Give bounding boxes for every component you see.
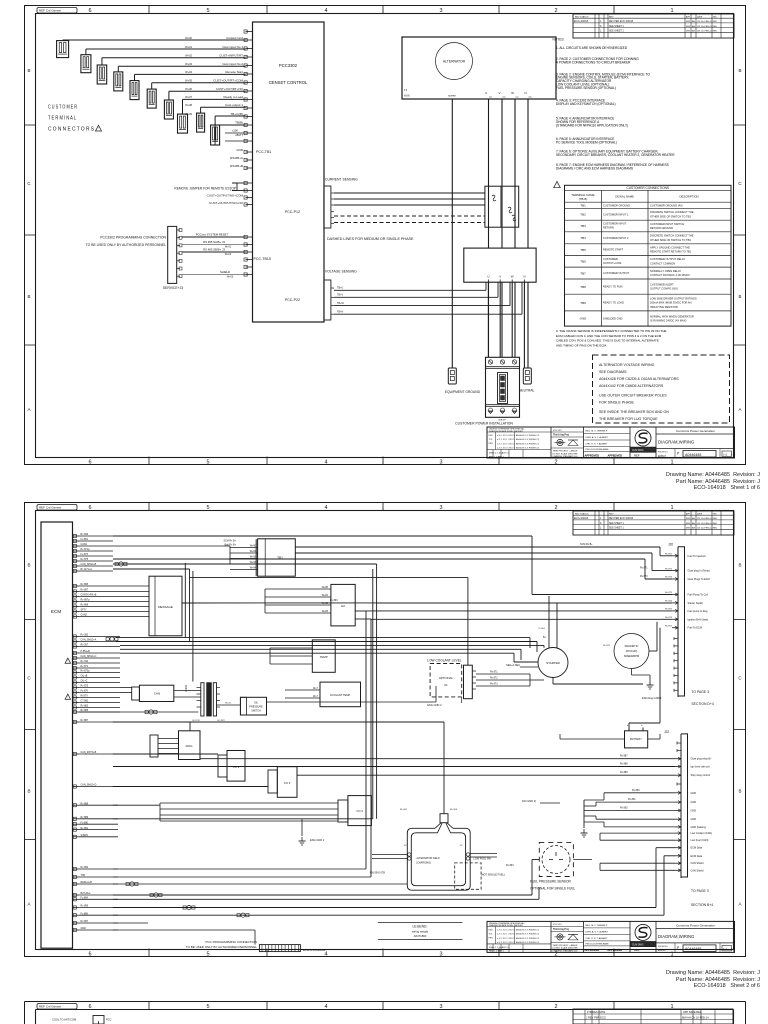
svg-text:W+01: W+01 (185, 45, 192, 49)
svg-text:GND: GND (691, 810, 697, 813)
svg-text:Fuel pump to Reg: Fuel pump to Reg (688, 610, 708, 613)
svg-text:EQUIPMENT GROUND: EQUIPMENT GROUND (445, 390, 481, 394)
svg-text:SECTION B+4: SECTION B+4 (691, 903, 713, 907)
svg-text:W+05: W+05 (185, 79, 192, 83)
svg-text:+: + (641, 723, 643, 727)
svg-text:TB(B): TB(B) (235, 121, 243, 125)
svg-text:Rv 844: Rv 844 (665, 601, 673, 603)
svg-text:W+503: W+503 (450, 809, 458, 811)
svg-text:CHK. K. S. T. ALBERT: CHK. K. S. T. ALBERT (586, 937, 608, 940)
svg-text:6: 6 (88, 460, 91, 466)
svg-text:SHIELD: SHIELD (220, 270, 230, 274)
svg-text:ECM Data: ECM Data (691, 855, 703, 858)
svg-text:TO BE USED ONLY BY AUTHORIZED: TO BE USED ONLY BY AUTHORIZED PERSONNEL (86, 243, 167, 247)
svg-text:CABLED CON. POS & CON.NEG. TH: CABLED CON. POS & CON.NEG. THIS IS DUE T… (556, 339, 659, 343)
svg-text:TB1: TB1 (580, 203, 586, 207)
svg-text:W+08: W+08 (185, 103, 192, 107)
svg-text:PCC: PCC (106, 1018, 112, 1022)
svg-text:CUST+OUT/RT+NO: CUST+OUT/RT+NO (216, 87, 244, 91)
svg-text:LTR DES DATE: LTR DES DATE (587, 1010, 605, 1014)
svg-text:PCC-P12: PCC-P12 (285, 210, 300, 214)
svg-text:DWG 1 1 SCALE 1:1: DWG 1 1 SCALE 1:1 (489, 946, 510, 949)
svg-text:DASHED LINES FOR MEDIUM OR SIN: DASHED LINES FOR MEDIUM OR SINGLE PHASE (327, 237, 414, 241)
svg-text:(TB15): (TB15) (579, 197, 588, 201)
svg-text:C: C (738, 676, 742, 681)
svg-text:Ready to Load: Ready to Load (223, 95, 243, 99)
svg-text:Rv 871: Rv 871 (665, 568, 673, 570)
svg-text:ANGLES X.X FINISH 2.5: ANGLES X.X FINISH 2.5 (516, 937, 540, 940)
svg-text:CUSTOMER INPUT SWITCH: CUSTOMER INPUT SWITCH (650, 222, 684, 226)
svg-text:screen: screen (448, 94, 456, 98)
svg-text:APPROVED: APPROVED (585, 948, 600, 952)
svg-text:2: 2 (554, 1004, 557, 1010)
svg-text:RS485+A: RS485+A (230, 156, 243, 160)
svg-text:REMOTE START RETURN TO TB1: REMOTE START RETURN TO TB1 (650, 250, 692, 254)
svg-text:CN 10+FEB+14: CN 10+FEB+14 (697, 523, 713, 525)
svg-text:W+02: W+02 (185, 54, 192, 58)
svg-text:Rv 873: Rv 873 (640, 575, 648, 578)
svg-text:Rv 890: Rv 890 (632, 789, 640, 792)
svg-text:TB6: TB6 (580, 259, 586, 263)
svg-text:PCC-TB1: PCC-TB1 (256, 150, 271, 154)
svg-text:x.X 2 .XX 2 .XXX 2: x.X 2 .XX 2 .XXX 2 (497, 938, 515, 940)
svg-text:IS RUNNING 24VDC (4X MAX): IS RUNNING 24VDC (4X MAX) (650, 319, 686, 323)
svg-text:REF Cnf Genset: REF Cnf Genset (39, 506, 61, 510)
svg-text:A0446485: A0446485 (685, 947, 701, 951)
svg-text:DATE: DATE (697, 512, 703, 515)
svg-text:A0471860: A0471860 (414, 934, 427, 938)
svg-text:2: 2 (554, 505, 557, 511)
svg-text:W: W (511, 91, 514, 95)
svg-text:J20: J20 (668, 543, 673, 547)
svg-text:W+94: W+94 (250, 567, 257, 570)
svg-text:SIGNAL NAME: SIGNAL NAME (615, 195, 634, 199)
svg-text:TB+W: TB+W (337, 302, 344, 305)
svg-text:Cust output 1: Cust output 1 (225, 103, 243, 107)
svg-text:CUM DWG: CUM DWG (632, 450, 644, 452)
svg-text:↓: ↓ (382, 9, 385, 15)
svg-text:W+7: W+7 (313, 687, 319, 690)
svg-text:DWN. A. S. T. ALBERT: DWN. A. S. T. ALBERT (586, 436, 609, 439)
svg-text:DISCRETE SWITCH CONNECT THE: DISCRETE SWITCH CONNECT THE (650, 234, 694, 238)
svg-text:x.X 0 .XX 0 .XXX 0: x.X 0 .XX 0 .XXX 0 (497, 929, 515, 931)
svg-text:SERVICE+J3: SERVICE+J3 (163, 286, 183, 290)
svg-text:TB9: TB9 (580, 301, 586, 305)
svg-text:W+01: W+01 (225, 246, 232, 249)
svg-text:MESSAGE: MESSAGE (158, 605, 173, 609)
svg-text:W+7: W+7 (313, 695, 319, 698)
svg-text:DO NOT SCALE DWG PER: DO NOT SCALE DWG PER (553, 452, 579, 455)
svg-text:Glow plug In (Temp): Glow plug In (Temp) (688, 570, 711, 573)
svg-text:B: B (27, 294, 30, 299)
svg-text:ANGLES X.X FINISH 2.5: ANGLES X.X FINISH 2.5 (516, 447, 540, 450)
svg-text:W+92: W+92 (250, 556, 257, 559)
svg-text:PM 01.02.09 RELEASE: PM 01.02.09 RELEASE (586, 448, 610, 451)
svg-text:Rv 872: Rv 872 (490, 677, 498, 680)
svg-text:NEG+A NEG: NEG+A NEG (506, 664, 520, 667)
svg-text:LOW FUEL SW: LOW FUEL SW (474, 858, 492, 861)
svg-text:TO PAGE 3: TO PAGE 3 (691, 889, 709, 893)
svg-text:Batt Rx B+: Batt Rx B+ (225, 544, 237, 547)
svg-text:APPROVED: APPROVED (608, 454, 623, 458)
svg-text:APPLY GROUND CONNECT THE: APPLY GROUND CONNECT THE (650, 246, 690, 250)
svg-text:FSCM NO.: FSCM NO. (658, 946, 669, 948)
svg-text:COOLANT TEMP: COOLANT TEMP (330, 693, 351, 697)
svg-text:DIM: DIM (489, 929, 493, 931)
svg-text:CONTACT COMMON: CONTACT COMMON (650, 261, 675, 265)
svg-text:REF: REF (634, 454, 640, 458)
svg-text:TB2: TB2 (580, 212, 586, 216)
svg-text:ANGLES X.X FINISH 2.5: ANGLES X.X FINISH 2.5 (516, 933, 540, 936)
svg-text:DWG 1 1 SCALE 1:1: DWG 1 1 SCALE 1:1 (489, 452, 510, 455)
svg-text:Rv 871: Rv 871 (490, 671, 498, 674)
svg-text:SCM Rx B+: SCM Rx B+ (580, 543, 593, 546)
svg-text:CAN Shield: CAN Shield (691, 862, 705, 865)
svg-text:x.X 1 .XX 1 .XXX 1: x.X 1 .XX 1 .XXX 1 (497, 934, 515, 936)
svg-text:CO 3: CO 3 (284, 781, 291, 785)
svg-text:5: 5 (206, 505, 209, 511)
svg-text:REV 1 J SHT 1: REV 1 J SHT 1 (489, 951, 505, 953)
svg-text:6: 6 (88, 1004, 91, 1010)
svg-text:B: B (27, 68, 30, 73)
svg-text:ALTERNATOR: ALTERNATOR (443, 60, 466, 64)
svg-text:TB4: TB4 (580, 236, 586, 240)
svg-text:LOW COOLANT LEVEL: LOW COOLANT LEVEL (427, 659, 462, 663)
svg-text:x.X 2 .XX 2 .XXX 2: x.X 2 .XX 2 .XXX 2 (497, 443, 515, 445)
svg-text:Fuel Pump To Coil: Fuel Pump To Coil (688, 594, 709, 597)
svg-text:Rv 893: Rv 893 (506, 864, 514, 867)
svg-text:W+04: W+04 (185, 70, 192, 74)
svg-text:CAN Shield: CAN Shield (691, 869, 705, 872)
svg-text:U: U (485, 91, 487, 95)
svg-text:Rv 875: Rv 875 (665, 592, 673, 594)
svg-text:GND: GND (691, 818, 697, 821)
svg-text:Ign three wire pin: Ign three wire pin (691, 766, 711, 769)
svg-text:TOL: TOL (489, 439, 494, 441)
svg-text:Low Fuel (CAN): Low Fuel (CAN) (691, 839, 709, 842)
svg-text:Rv 889: Rv 889 (620, 771, 628, 774)
svg-text:PCC-P22: PCC-P22 (285, 298, 300, 302)
svg-text:CUSTOMER POWER INSTALLATION: CUSTOMER POWER INSTALLATION (455, 422, 513, 426)
svg-text:(1): (1) (503, 97, 506, 99)
svg-text:Third Ang Proj: Third Ang Proj (553, 928, 569, 931)
svg-text:9. THE CRANK SENSOR IS INDEPEN: 9. THE CRANK SENSOR IS INDEPENDENTLY CON… (556, 329, 666, 333)
svg-text:TB3: TB3 (580, 224, 586, 228)
svg-text:Rv 871: Rv 871 (640, 567, 648, 570)
svg-text:4TH XXX: 4TH XXX (553, 430, 562, 432)
svg-text:PCC3302 PROGRAMMING CONNECTION: PCC3302 PROGRAMMING CONNECTION (100, 236, 166, 240)
svg-text:DIAGRAM,WIRING: DIAGRAM,WIRING (658, 440, 694, 445)
svg-text:NOTES:: NOTES: (553, 38, 565, 42)
svg-text:J22: J22 (664, 730, 669, 734)
svg-text:AH: AH (692, 25, 695, 28)
svg-text:NEUTRAL: NEUTRAL (519, 389, 535, 393)
svg-text:T E R M I N A L: T E R M I N A L (48, 116, 76, 122)
svg-text:A: A (27, 902, 30, 907)
svg-text:PM 01.02.09 RELEASE: PM 01.02.09 RELEASE (586, 942, 610, 945)
svg-text:W+00: W+00 (185, 36, 192, 40)
svg-text:TOL: TOL (489, 933, 494, 935)
svg-text:ALTERNATOR FIELD: ALTERNATOR FIELD (416, 857, 439, 860)
svg-text:W+90: W+90 (250, 545, 257, 548)
svg-text:DIM: DIM (489, 435, 493, 437)
svg-text:ANGLES X.X FINISH 2.5: ANGLES X.X FINISH 2.5 (516, 434, 540, 437)
svg-text:THE BREAKER FOR LUG TORQUE: THE BREAKER FOR LUG TORQUE (599, 417, 658, 421)
svg-text:CO 4: CO 4 (356, 809, 363, 813)
svg-text:Cummins Power Generation: Cummins Power Generation (676, 429, 715, 433)
svg-text:E05617: E05617 (658, 950, 667, 952)
svg-text:SECTION D+4: SECTION D+4 (691, 702, 713, 706)
svg-text:PCC-TB15: PCC-TB15 (254, 257, 271, 261)
svg-text:OUTPUT CONFIG (NO): OUTPUT CONFIG (NO) (650, 287, 678, 291)
svg-text:LOW SIDE DRIVER OUTPUT RATINGS: LOW SIDE DRIVER OUTPUT RATINGS: (650, 296, 698, 300)
svg-text:PRESSURE: PRESSURE (249, 706, 263, 709)
svg-text:READY TO RUN: READY TO RUN (603, 285, 623, 289)
svg-text:REF Cnf Genset: REF Cnf Genset (39, 9, 61, 13)
svg-text:Glow plug relay B+: Glow plug relay B+ (691, 758, 713, 761)
svg-text:4: 4 (324, 8, 327, 14)
svg-text:Rv 857: Rv 857 (665, 625, 673, 627)
svg-text:CUSTOMER GROUND: CUSTOMER GROUND (603, 203, 630, 207)
svg-text:1: 1 (670, 8, 673, 14)
svg-text:x10K: x10K (232, 129, 238, 133)
svg-text:OTHER SIDE OF SWITCH TO TB3: OTHER SIDE OF SWITCH TO TB3 (650, 238, 691, 242)
svg-text:APPROVED: APPROVED (585, 454, 600, 458)
svg-text:4: 4 (324, 460, 327, 466)
svg-text:TO PAGE 3: TO PAGE 3 (691, 690, 709, 694)
svg-text:x.X 0 .XX 0 .XXX 0: x.X 0 .XX 0 .XXX 0 (497, 435, 515, 437)
svg-text:1: 1 (670, 460, 673, 466)
svg-text:REV: REV (609, 16, 614, 18)
svg-text:RS 485 SA/B+ J3: RS 485 SA/B+ J3 (203, 240, 225, 244)
svg-text:3: 3 (439, 8, 442, 14)
svg-text:NORMAL HIGH WHEN GENERATOR: NORMAL HIGH WHEN GENERATOR (650, 314, 694, 318)
svg-text:1+1: 1+1 (723, 453, 728, 456)
svg-text:TEMP: TEMP (320, 655, 328, 659)
svg-text:REMOVE JUMPER FOR REMOTE ESTOP: REMOVE JUMPER FOR REMOTE ESTOP (174, 187, 236, 191)
svg-text:W: W (511, 275, 514, 279)
svg-text:A044X428 FOR C62D5 & C62A5 AL: A044X428 FOR C62D5 & C62A5 ALTERNATORS (599, 377, 679, 381)
svg-text:NORMALLY OPEN RELAY: NORMALLY OPEN RELAY (650, 269, 681, 273)
svg-text:CUSTOMER INPUT: CUSTOMER INPUT (603, 222, 627, 226)
svg-text:W+06: W+06 (185, 87, 192, 91)
svg-text:CUSTOMER INPUT 1: CUSTOMER INPUT 1 (603, 212, 629, 216)
svg-text:TB+V: TB+V (337, 294, 343, 297)
svg-text:Remote Start: Remote Start (225, 70, 243, 74)
svg-text:Glow Plugs To ECM: Glow Plugs To ECM (688, 578, 710, 581)
svg-text:CAN: CAN (154, 692, 160, 696)
svg-text:250mA MAX IMUM 30VDC FOR AN: 250mA MAX IMUM 30VDC FOR AN (650, 301, 692, 305)
svg-text:BATTERY: BATTERY (630, 737, 642, 741)
svg-text:FUEL PRESSURE SENSOR: FUEL PRESSURE SENSOR (530, 880, 571, 884)
svg-text:CUSTOMER OUTPUT RELAY: CUSTOMER OUTPUT RELAY (650, 257, 685, 261)
svg-text:ENG Eng GND 1: ENG Eng GND 1 (642, 696, 662, 700)
svg-text:A: A (738, 902, 741, 907)
svg-text:CN 10+FEB+14: CN 10+FEB+14 (697, 518, 713, 520)
svg-text:Rv 887: Rv 887 (620, 755, 628, 758)
svg-text:Rv 891: Rv 891 (628, 798, 636, 801)
svg-text:ANGLES X.X FINISH 2.5: ANGLES X.X FINISH 2.5 (516, 941, 540, 944)
svg-text:6: 6 (88, 8, 91, 14)
svg-text:TB+N: TB+N (337, 311, 343, 314)
svg-text:CN 10+FEB+14: CN 10+FEB+14 (697, 21, 713, 23)
svg-text:ENG GND 2: ENG GND 2 (310, 838, 325, 842)
svg-text:C U S T O M E R: C U S T O M E R (48, 105, 77, 111)
svg-text:COOL TO ANT/COM: COOL TO ANT/COM (52, 1018, 76, 1022)
svg-text:FUEL PRESSURE SENSOR (OPTIONAL: FUEL PRESSURE SENSOR (OPTIONAL) (556, 86, 616, 90)
svg-text:Rv 873: Rv 873 (665, 577, 673, 579)
svg-text:APP DATE REL: APP DATE REL (683, 1010, 702, 1014)
svg-text:DRAWING STANDARD 100: DRAWING STANDARD 100 (553, 455, 579, 458)
svg-text:FOR SINGLE PHASE: FOR SINGLE PHASE (599, 401, 635, 405)
svg-text:DIMENSIONS ARE IN MILLIMETERS: DIMENSIONS ARE IN MILLIMETERS (489, 924, 523, 927)
svg-text:A POWER CONNECTIONS TO CIRCUIT: A POWER CONNECTIONS TO CIRCUIT BREAKER (556, 61, 631, 65)
svg-text:B: B (27, 789, 30, 794)
svg-text:REV PER ECO 104918: REV PER ECO 104918 (609, 518, 634, 520)
svg-text:DRAWING STANDARD 100: DRAWING STANDARD 100 (553, 950, 579, 953)
svg-text:Rv 847: Rv 847 (665, 609, 673, 611)
svg-text:↑: ↑ (382, 952, 385, 958)
svg-text:DIAGRAMS / CIRC AND ECM HARNES: DIAGRAMS / CIRC AND ECM HARNESS DIAGRAMS (556, 167, 633, 171)
svg-text:Coolant Gnd: Coolant Gnd (226, 36, 243, 40)
svg-text:CN 10+FEB+14: CN 10+FEB+14 (697, 528, 713, 530)
svg-text:VOLTAGE SENSING: VOLTAGE SENSING (325, 270, 357, 274)
svg-text:FSCM NO.: FSCM NO. (658, 452, 669, 454)
svg-text:PER: PER (489, 443, 494, 445)
svg-text:REF Cnf Genset: REF Cnf Genset (39, 1005, 61, 1009)
svg-text:(1): (1) (516, 97, 519, 99)
svg-text:H2: H2 (341, 604, 345, 608)
svg-text:MDL. M. V. TERWELP: MDL. M. V. TERWELP (586, 925, 608, 927)
svg-text:PCC PROGRAMMING CONNECTION: PCC PROGRAMMING CONNECTION (205, 940, 257, 944)
svg-text:W+91: W+91 (250, 550, 257, 553)
svg-text:P+851: P+851 (539, 628, 546, 630)
svg-text:(1): (1) (489, 97, 492, 99)
svg-text:THIRD PROJECT + ANGLE: THIRD PROJECT + ANGLE (553, 450, 579, 453)
svg-text:SEE INSIDE THE BREAKER BOX AND: SEE INSIDE THE BREAKER BOX AND ON (599, 410, 669, 414)
svg-text:SEE SHEET 1: SEE SHEET 1 (609, 31, 624, 33)
svg-text:Ignition B+M (batt): Ignition B+M (batt) (688, 618, 709, 621)
svg-text:DISCRETE SWITCH CONNECT THE: DISCRETE SWITCH CONNECT THE (650, 210, 694, 214)
svg-text:REV: REV (609, 513, 614, 515)
svg-text:CUSTOMER: CUSTOMER (603, 257, 618, 261)
svg-text:PCC3302: PCC3302 (279, 63, 298, 68)
svg-text:A: A (27, 407, 30, 412)
svg-text:OTHER SIDE OF SWITCH TO TB3: OTHER SIDE OF SWITCH TO TB3 (650, 214, 691, 218)
svg-text:E05617: E05617 (658, 456, 667, 458)
svg-text:Cust input No 2: Cust input No 2 (222, 62, 243, 66)
svg-text:Fuel To Injectors: Fuel To Injectors (688, 555, 707, 558)
svg-text:4: 4 (324, 505, 327, 511)
svg-text:LEGEND:: LEGEND: (413, 925, 428, 929)
svg-text:xBATT: xBATT (235, 133, 243, 137)
svg-text:C: C (738, 181, 742, 186)
svg-text:↓: ↓ (382, 1005, 385, 1011)
svg-text:GND: GND (580, 317, 588, 321)
svg-text:SPEED/RPM: SPEED/RPM (624, 654, 639, 658)
svg-text:C: C (27, 676, 31, 681)
svg-text:P/N 0541 6TB: P/N 0541 6TB (370, 872, 385, 875)
svg-text:CUST+OUTPUT/NO+COM: CUST+OUTPUT/NO+COM (207, 194, 244, 198)
svg-text:B: B (27, 563, 30, 568)
svg-text:INDUCTIVE RESISTOR: INDUCTIVE RESISTOR (650, 305, 678, 309)
svg-text:CUST+OUT/RT+COM: CUST+OUT/RT+COM (213, 79, 243, 83)
svg-text:REV STATUS: REV STATUS (575, 512, 589, 515)
svg-text:W+09: W+09 (185, 112, 192, 116)
svg-text:Rv 875: Rv 875 (603, 645, 611, 647)
svg-text:N: N (523, 275, 525, 279)
svg-text:U: U (487, 275, 489, 279)
svg-text:DISPLAY AND KEYSWITCH (OPTIONA: DISPLAY AND KEYSWITCH (OPTIONAL) (556, 102, 616, 106)
svg-text:Rv 876: Rv 876 (665, 617, 673, 619)
svg-text:V: V (498, 91, 500, 95)
svg-text:AH: AH (692, 517, 695, 520)
svg-text:PCCxxx SYSTEM RESET: PCCxxx SYSTEM RESET (196, 232, 229, 236)
svg-text:W+80: W+80 (322, 586, 329, 589)
svg-text:CUSTOMER CONNECTIONS: CUSTOMER CONNECTIONS (626, 186, 669, 190)
svg-text:P: P (677, 452, 680, 456)
svg-text:W+03: W+03 (227, 276, 234, 279)
svg-text:C: C (27, 181, 31, 186)
svg-text:AH: AH (692, 527, 695, 530)
svg-text:CUSTOMER ALERT: CUSTOMER ALERT (650, 283, 674, 287)
svg-text:W+03: W+03 (185, 62, 192, 66)
svg-text:5: 5 (206, 8, 209, 14)
svg-text:x.X 3 .XX 3 .XXX 3: x.X 3 .XX 3 .XXX 3 (497, 448, 515, 450)
svg-text:ECO+104918: ECO+104918 (574, 21, 589, 23)
svg-text:DESCRIPTION: DESCRIPTION (679, 195, 698, 199)
svg-text:PER: PER (489, 937, 494, 939)
svg-text:PC SERVICE TOOL MODEM (OPTIONA: PC SERVICE TOOL MODEM (OPTIONAL) (556, 140, 617, 144)
svg-text:STARTER: STARTER (546, 661, 561, 665)
svg-text:OPTIONAL FOR SINGLE FUEL: OPTIONAL FOR SINGLE FUEL (530, 887, 575, 891)
svg-text:SEE SHEET 1: SEE SHEET 1 (609, 528, 624, 530)
svg-text:RETURN: RETURN (603, 226, 614, 230)
svg-text:RETURN GROUND: RETURN GROUND (650, 226, 673, 230)
svg-text:W+02: W+02 (225, 253, 232, 256)
svg-text:REF: REF (634, 948, 640, 952)
svg-text:J: J (731, 452, 733, 456)
svg-text:V: V (499, 275, 501, 279)
svg-text:REV PER ECO 104918: REV PER ECO 104918 (609, 21, 634, 23)
svg-text:USE OUTER CIRCUIT BREAKER POLE: USE OUTER CIRCUIT BREAKER POLES (599, 394, 667, 398)
svg-text:04: 04 (444, 683, 448, 687)
svg-text:CUST+INPUT/RT: CUST+INPUT/RT (219, 54, 243, 58)
svg-text:SWITCH: SWITCH (251, 710, 261, 713)
svg-text:↑: ↑ (382, 460, 385, 466)
svg-text:ECO+104918: ECO+104918 (574, 518, 589, 520)
svg-text:1. ALL CIRCUITS ARE SHOWN DE+: 1. ALL CIRCUITS ARE SHOWN DE+ENERGIZED (556, 46, 628, 50)
svg-text:ANGLES X.X FINISH 2.5: ANGLES X.X FINISH 2.5 (516, 438, 540, 441)
svg-text:W+83: W+83 (322, 610, 329, 613)
svg-text:DWN. A. S. T. ALBERT: DWN. A. S. T. ALBERT (586, 930, 609, 933)
svg-text:SCM Rx B+: SCM Rx B+ (223, 540, 236, 543)
svg-text:ECM: ECM (51, 609, 61, 614)
svg-text:TO BE USED ONLY BY AUTHORIZED: TO BE USED ONLY BY AUTHORIZED PERSONNEL (186, 945, 257, 949)
svg-text:(NOT SINGLE FUEL): (NOT SINGLE FUEL) (481, 874, 505, 877)
svg-text:TB+xx(B): TB+xx(B) (230, 112, 243, 116)
svg-text:TB1: TB1 (277, 556, 283, 560)
svg-text:02: 02 (404, 845, 407, 847)
svg-text:T1: T1 (404, 88, 408, 92)
svg-text:B: B (738, 294, 741, 299)
svg-text:ALTERNATOR VOLTAGE WIRING: ALTERNATOR VOLTAGE WIRING (599, 363, 655, 367)
svg-text:J REV PER ECO: J REV PER ECO (586, 1015, 606, 1019)
svg-text:CUSTOMER GROUND (4X): CUSTOMER GROUND (4X) (650, 203, 683, 207)
svg-text:OPTIONAL: OPTIONAL (439, 676, 454, 680)
svg-text:Cust input No 1: Cust input No 1 (222, 45, 243, 49)
svg-text:GND: GND (236, 148, 244, 152)
